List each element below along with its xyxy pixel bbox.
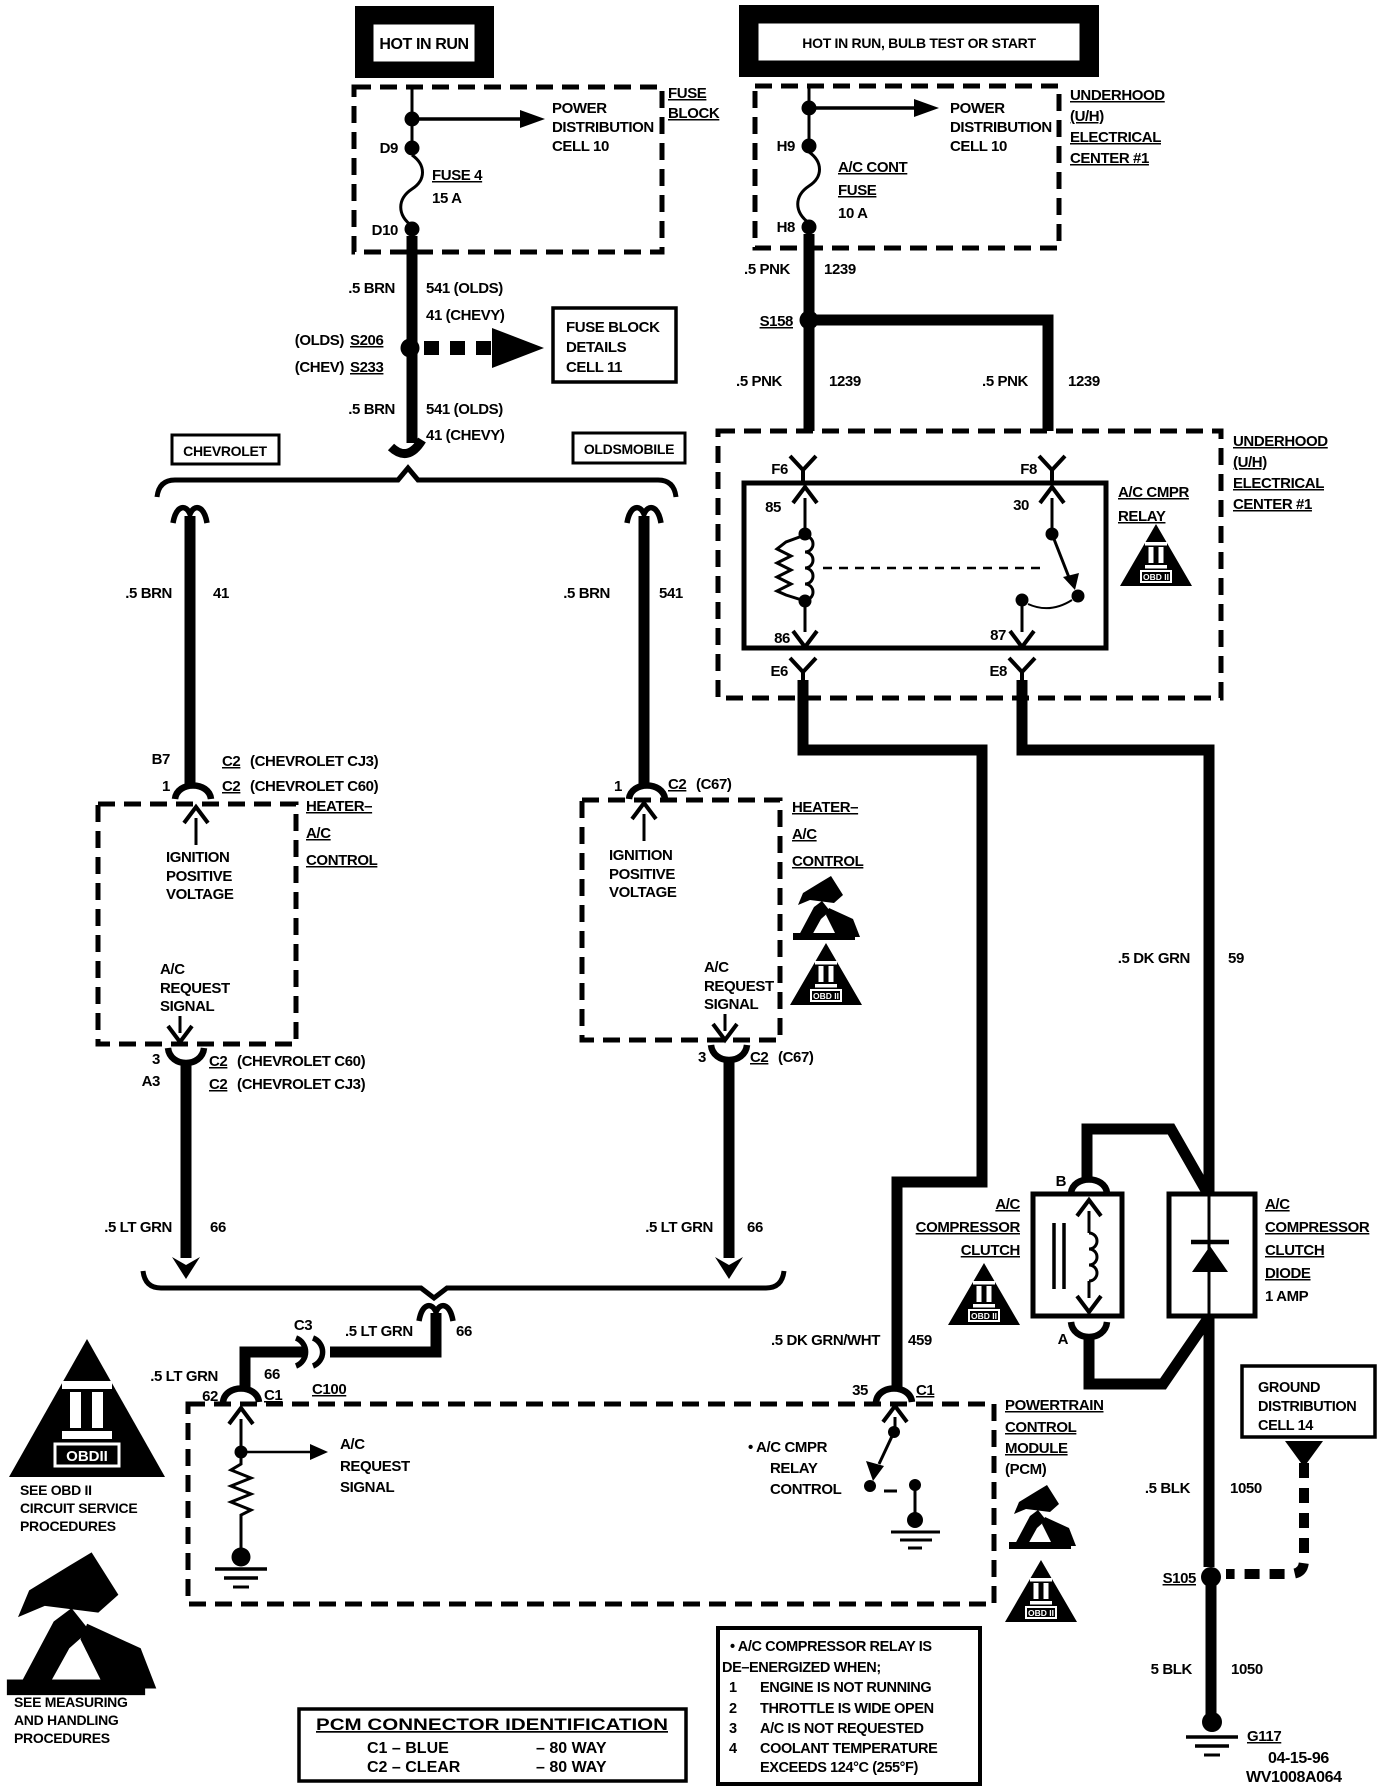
svg-text:EXCEEDS 124°C (255°F): EXCEEDS 124°C (255°F) xyxy=(760,1760,918,1776)
wire S158 branch right xyxy=(809,320,1048,431)
relay pin 30 xyxy=(1013,487,1064,530)
svg-text:.5 BRN: .5 BRN xyxy=(348,401,395,418)
svg-text:C2 – CLEAR: C2 – CLEAR xyxy=(367,1759,461,1776)
svg-text:10 A: 10 A xyxy=(838,205,868,222)
fuse block dashed box xyxy=(354,87,662,252)
OBD II symbol (relay) xyxy=(1120,524,1192,586)
wire .5 PNK 1239 upper xyxy=(804,234,815,320)
svg-text:FUSE: FUSE xyxy=(668,85,707,102)
svg-text:IGNITION: IGNITION xyxy=(609,847,672,864)
svg-text:15 A: 15 A xyxy=(432,190,462,207)
splice S206/S233 xyxy=(295,332,420,376)
svg-text:(C67): (C67) xyxy=(696,776,732,793)
svg-text:(OLDS): (OLDS) xyxy=(295,332,345,349)
svg-text:.5 PNK: .5 PNK xyxy=(736,373,783,390)
node H8 xyxy=(802,220,817,235)
label POWERTRAIN CONTROL MODULE (PCM) xyxy=(1005,1397,1104,1478)
OBD II service note symbol (large) xyxy=(9,1339,165,1534)
PCM connector identification table xyxy=(299,1709,686,1781)
svg-text:66: 66 xyxy=(210,1219,226,1236)
svg-text:04-15-96: 04-15-96 xyxy=(1268,1750,1329,1767)
wire from hot feed into fuse block xyxy=(411,87,414,155)
svg-text:(CHEVROLET CJ3): (CHEVROLET CJ3) xyxy=(237,1076,366,1093)
fuse block details cell 11 box xyxy=(553,308,676,382)
svg-text:PROCEDURES: PROCEDURES xyxy=(14,1730,110,1746)
svg-text:CENTER #1: CENTER #1 xyxy=(1233,496,1312,513)
arrow to power distribution cell 10 (right) xyxy=(809,99,1052,155)
splice S158 xyxy=(760,311,819,331)
svg-text:459: 459 xyxy=(908,1332,932,1349)
svg-text:G117: G117 xyxy=(1247,1728,1281,1745)
wire branch to clutch pin B xyxy=(1087,1129,1207,1192)
svg-text:DISTRIBUTION: DISTRIBUTION xyxy=(1258,1399,1356,1415)
svg-text:DISTRIBUTION: DISTRIBUTION xyxy=(552,119,654,136)
svg-text:C100: C100 xyxy=(312,1381,346,1398)
svg-text:41 (CHEVY): 41 (CHEVY) xyxy=(426,307,505,324)
connector C1 pin 35 (PCM) xyxy=(852,1382,934,1402)
ESD handling note symbol (large) xyxy=(7,1552,156,1746)
power source box HOT IN RUN, BULB TEST OR START xyxy=(739,5,1099,77)
svg-text:E6: E6 xyxy=(770,663,788,680)
svg-text:GROUND: GROUND xyxy=(1258,1380,1320,1396)
svg-text:ELECTRICAL: ELECTRICAL xyxy=(1070,129,1161,146)
fuse A/C CONT FUSE 10A xyxy=(798,152,908,223)
svg-text:CLUTCH: CLUTCH xyxy=(961,1242,1020,1259)
svg-text:CONTROL: CONTROL xyxy=(1005,1419,1077,1436)
svg-text:CHEVROLET: CHEVROLET xyxy=(183,443,267,459)
svg-text:DIODE: DIODE xyxy=(1265,1265,1311,1282)
splice S105 xyxy=(1163,1567,1221,1587)
svg-text:CELL 10: CELL 10 xyxy=(950,138,1007,155)
wire .5 DK GRN 59 from E8 to clutch xyxy=(1022,680,1209,1196)
label UNDERHOOD (U/H) ELECTRICAL CENTER #1 (relay box) xyxy=(1233,433,1328,513)
arrow into bottom brace (olds) xyxy=(715,1257,743,1279)
PCM a/c request input xyxy=(229,1408,410,1496)
wire .5 BRN 541 oldsmobile branch xyxy=(639,516,650,784)
svg-text:ENGINE IS NOT RUNNING: ENGINE IS NOT RUNNING xyxy=(760,1680,931,1696)
svg-text:541: 541 xyxy=(659,585,683,602)
node H9 xyxy=(802,139,817,154)
svg-text:2: 2 xyxy=(729,1701,737,1717)
svg-text:5 BLK: 5 BLK xyxy=(1151,1661,1193,1678)
wire into A/C CONT fuse xyxy=(808,86,811,152)
svg-text:C2: C2 xyxy=(750,1049,768,1066)
svg-text:– 80 WAY: – 80 WAY xyxy=(536,1740,607,1757)
svg-text:DETAILS: DETAILS xyxy=(566,339,627,356)
PCM a/c cmpr relay control driver xyxy=(864,1406,940,1548)
svg-text:COMPRESSOR: COMPRESSOR xyxy=(916,1219,1021,1236)
svg-text:A/C: A/C xyxy=(792,826,817,843)
svg-text:UNDERHOOD: UNDERHOOD xyxy=(1233,433,1328,450)
relay internal dashed actuation line xyxy=(823,567,1044,570)
svg-text:541 (OLDS): 541 (OLDS) xyxy=(426,401,503,418)
svg-text:A/C: A/C xyxy=(340,1436,365,1453)
svg-text:SIGNAL: SIGNAL xyxy=(704,996,759,1013)
svg-text:VOLTAGE: VOLTAGE xyxy=(609,884,677,901)
svg-text:C1: C1 xyxy=(264,1387,282,1404)
svg-text:H8: H8 xyxy=(777,219,795,236)
svg-text:PROCEDURES: PROCEDURES xyxy=(20,1518,116,1534)
ground G117 xyxy=(1186,1712,1281,1755)
svg-text:SEE OBD II: SEE OBD II xyxy=(20,1482,92,1498)
svg-text:MODULE: MODULE xyxy=(1005,1440,1068,1457)
svg-text:(U/H): (U/H) xyxy=(1070,108,1104,125)
svg-text:F8: F8 xyxy=(1020,461,1037,478)
svg-text:.5 BRN: .5 BRN xyxy=(348,280,395,297)
A/C compressor clutch diode box xyxy=(1169,1194,1255,1316)
svg-text:86: 86 xyxy=(774,630,790,647)
svg-text:S105: S105 xyxy=(1163,1570,1196,1587)
fuse FUSE 4 15A xyxy=(401,155,483,226)
svg-text:A/C CMPR: A/C CMPR xyxy=(1118,484,1190,501)
a/c request signal output (chevy) xyxy=(160,961,230,1042)
svg-text:ELECTRICAL: ELECTRICAL xyxy=(1233,475,1324,492)
connector clutch pin B xyxy=(1071,1180,1107,1194)
connector E8 xyxy=(1009,658,1035,683)
svg-text:1239: 1239 xyxy=(1068,373,1100,390)
svg-text:PCM CONNECTOR IDENTIFICATION: PCM CONNECTOR IDENTIFICATION xyxy=(316,1715,668,1734)
svg-text:S206: S206 xyxy=(350,332,383,349)
underhood electrical center #1 dashed box (relay) xyxy=(718,431,1221,698)
svg-text:A/C: A/C xyxy=(306,825,331,842)
svg-text:REQUEST: REQUEST xyxy=(704,978,774,995)
svg-text:.5 LT GRN: .5 LT GRN xyxy=(345,1323,413,1340)
svg-text:POSITIVE: POSITIVE xyxy=(609,866,675,883)
wire .5 LT GRN 66 to PCM xyxy=(330,1313,436,1352)
svg-text:(C67): (C67) xyxy=(778,1049,814,1066)
svg-text:.5 LT GRN: .5 LT GRN xyxy=(645,1219,713,1236)
A/C compressor clutch box xyxy=(1033,1194,1122,1316)
powertrain control module dashed box xyxy=(188,1404,994,1604)
svg-text:A/C: A/C xyxy=(704,959,729,976)
svg-text:87: 87 xyxy=(990,627,1006,644)
svg-text:SIGNAL: SIGNAL xyxy=(340,1479,395,1496)
svg-text:CELL 10: CELL 10 xyxy=(552,138,609,155)
svg-text:CENTER #1: CENTER #1 xyxy=(1070,150,1149,167)
svg-text:DE–ENERGIZED WHEN;: DE–ENERGIZED WHEN; xyxy=(722,1660,881,1676)
ground distribution funnel arrow xyxy=(1285,1441,1323,1467)
svg-text:4: 4 xyxy=(729,1741,737,1757)
connector C2 pin 3/A3 xyxy=(142,1048,366,1093)
wire .5 BLK 1050 below diode xyxy=(1204,1316,1215,1567)
hook arrow into brace xyxy=(391,440,422,454)
svg-text:A3: A3 xyxy=(142,1073,160,1090)
label UNDERHOOD (U/H) ELECTRICAL CENTER #1 (top) xyxy=(1070,87,1165,167)
top distribution brace xyxy=(157,468,676,497)
svg-text:B: B xyxy=(1056,1173,1067,1190)
oldsmobile branch hook xyxy=(627,508,661,523)
svg-text:VOLTAGE: VOLTAGE xyxy=(166,886,234,903)
svg-text:.5 BLK: .5 BLK xyxy=(1145,1480,1191,1497)
svg-text:A/C CONT: A/C CONT xyxy=(838,159,908,176)
svg-text:85: 85 xyxy=(765,499,781,516)
svg-text:– 80 WAY: – 80 WAY xyxy=(536,1759,607,1776)
svg-text:• A/C COMPRESSOR RELAY IS: • A/C COMPRESSOR RELAY IS xyxy=(730,1639,932,1655)
svg-text:66: 66 xyxy=(747,1219,763,1236)
svg-text:S233: S233 xyxy=(350,359,383,376)
svg-text:C1 – BLUE: C1 – BLUE xyxy=(367,1740,449,1757)
svg-text:30: 30 xyxy=(1013,497,1029,514)
svg-text:C1: C1 xyxy=(916,1382,934,1399)
svg-text:1: 1 xyxy=(162,778,170,795)
svg-text:1239: 1239 xyxy=(824,261,856,278)
svg-text:UNDERHOOD: UNDERHOOD xyxy=(1070,87,1165,104)
svg-text:THROTTLE IS WIDE OPEN: THROTTLE IS WIDE OPEN xyxy=(760,1701,934,1717)
relay pin 85 xyxy=(765,487,817,531)
svg-text:(CHEVROLET CJ3): (CHEVROLET CJ3) xyxy=(250,753,379,770)
note box A/C compressor relay de-energized xyxy=(718,1628,980,1784)
svg-text:CELL 11: CELL 11 xyxy=(566,359,622,376)
svg-text:FUSE: FUSE xyxy=(838,182,877,199)
wire clutch pin A to ground wire xyxy=(1089,1320,1207,1384)
svg-text:C2: C2 xyxy=(222,778,240,795)
svg-text:CONTROL: CONTROL xyxy=(306,852,378,869)
hook at brace output xyxy=(419,1306,453,1321)
label A/C CMPR RELAY CONTROL xyxy=(748,1439,842,1498)
svg-text:H9: H9 xyxy=(777,138,795,155)
svg-text:.5 LT GRN: .5 LT GRN xyxy=(150,1368,218,1385)
svg-text:C3: C3 xyxy=(294,1317,312,1334)
svg-text:• A/C CMPR: • A/C CMPR xyxy=(748,1439,828,1456)
svg-text:POWER: POWER xyxy=(552,100,607,117)
bottom collector brace xyxy=(143,1271,784,1298)
svg-text:B7: B7 xyxy=(152,751,170,768)
svg-text:41 (CHEVY): 41 (CHEVY) xyxy=(426,427,505,444)
PCM internal ground (left) xyxy=(215,1548,267,1588)
svg-text:.5 DK GRN/WHT: .5 DK GRN/WHT xyxy=(771,1332,880,1349)
svg-text:.5 DK GRN: .5 DK GRN xyxy=(1118,950,1190,967)
svg-text:COOLANT TEMPERATURE: COOLANT TEMPERATURE xyxy=(760,1741,938,1757)
label HEATER-A/C CONTROL (right) xyxy=(792,799,864,870)
svg-text:(PCM): (PCM) xyxy=(1005,1461,1047,1478)
svg-text:541 (OLDS): 541 (OLDS) xyxy=(426,280,503,297)
ignition positive voltage input (olds) xyxy=(609,803,677,901)
svg-text:D9: D9 xyxy=(380,140,398,157)
wire .5 LT GRN 66 (olds) xyxy=(724,1061,735,1258)
svg-text:AND HANDLING: AND HANDLING xyxy=(14,1712,119,1728)
svg-text:HOT IN RUN: HOT IN RUN xyxy=(379,36,468,53)
svg-text:.5 BRN: .5 BRN xyxy=(125,585,172,602)
svg-text:RELAY: RELAY xyxy=(770,1460,818,1477)
svg-text:FUSE BLOCK: FUSE BLOCK xyxy=(566,319,660,336)
OBD II symbol (olds heater control) xyxy=(790,943,862,1005)
label A/C COMPRESSOR CLUTCH DIODE 1 AMP xyxy=(1265,1196,1370,1305)
svg-text:CELL 14: CELL 14 xyxy=(1258,1418,1313,1434)
svg-text:C2: C2 xyxy=(209,1076,227,1093)
underhood electrical center dashed box (fuse) xyxy=(755,86,1059,248)
node D9 xyxy=(405,141,420,156)
chevrolet branch hook xyxy=(173,508,207,523)
svg-text:POSITIVE: POSITIVE xyxy=(166,868,232,885)
svg-text:RELAY: RELAY xyxy=(1118,508,1166,525)
svg-text:C2: C2 xyxy=(222,753,240,770)
arrow to power distribution cell 10 xyxy=(412,100,654,155)
svg-text:A/C: A/C xyxy=(160,961,185,978)
svg-text:66: 66 xyxy=(456,1323,472,1340)
svg-text:A: A xyxy=(1058,1331,1069,1348)
svg-text:A/C: A/C xyxy=(1265,1196,1290,1213)
svg-text:IGNITION: IGNITION xyxy=(166,849,229,866)
label HEATER-A/C CONTROL (left) xyxy=(306,798,378,869)
svg-text:A/C IS NOT REQUESTED: A/C IS NOT REQUESTED xyxy=(760,1721,924,1737)
connector C100 pin 62/66 C1 xyxy=(150,1366,346,1405)
svg-text:HEATER–: HEATER– xyxy=(792,799,858,816)
svg-text:A/C: A/C xyxy=(995,1196,1020,1213)
heater-A/C control box (chevrolet) xyxy=(98,804,296,1044)
svg-text:(CHEVROLET C60): (CHEVROLET C60) xyxy=(250,778,379,795)
heater-A/C control box (oldsmobile) xyxy=(582,800,780,1040)
dashed wire ground distribution to S105 xyxy=(1226,1463,1304,1574)
node D10 xyxy=(405,222,420,237)
connector F6 xyxy=(790,456,816,481)
svg-text:OLDSMOBILE: OLDSMOBILE xyxy=(584,441,674,457)
svg-text:HOT IN RUN, BULB TEST OR START: HOT IN RUN, BULB TEST OR START xyxy=(802,35,1036,51)
svg-text:(U/H): (U/H) xyxy=(1233,454,1267,471)
svg-text:(CHEV): (CHEV) xyxy=(295,359,345,376)
svg-text:CLUTCH: CLUTCH xyxy=(1265,1242,1324,1259)
svg-text:D10: D10 xyxy=(372,222,398,239)
svg-text:1: 1 xyxy=(614,778,622,795)
svg-text:CIRCUIT SERVICE: CIRCUIT SERVICE xyxy=(20,1500,137,1516)
svg-text:FUSE 4: FUSE 4 xyxy=(432,167,483,184)
wire .5 LT GRN 66 (chevy) xyxy=(181,1064,192,1258)
svg-text:.5 PNK: .5 PNK xyxy=(744,261,791,278)
svg-text:C2: C2 xyxy=(668,776,686,793)
svg-text:3: 3 xyxy=(698,1049,706,1066)
ignition positive voltage input (chevy) xyxy=(166,807,234,903)
relay box A/C CMPR RELAY xyxy=(744,483,1106,648)
OBD II symbol (clutch) xyxy=(948,1263,1020,1325)
svg-text:SEE MEASURING: SEE MEASURING xyxy=(14,1694,128,1710)
svg-text:1050: 1050 xyxy=(1230,1480,1262,1497)
connector E6 xyxy=(790,658,816,683)
ground distribution cell 14 box xyxy=(1242,1366,1375,1437)
svg-text:3: 3 xyxy=(729,1721,737,1737)
wire .5 BRN 41 chevrolet branch xyxy=(185,516,196,784)
in-line connector C3 xyxy=(296,1338,323,1366)
ESD symbol (olds heater control) xyxy=(793,876,860,940)
svg-text:3: 3 xyxy=(152,1051,160,1068)
svg-text:.5 BRN: .5 BRN xyxy=(563,585,610,602)
a/c request signal output (olds) xyxy=(704,959,774,1040)
svg-text:.5 LT GRN: .5 LT GRN xyxy=(104,1219,172,1236)
svg-text:.5 PNK: .5 PNK xyxy=(982,373,1029,390)
svg-text:1050: 1050 xyxy=(1231,1661,1263,1678)
svg-text:35: 35 xyxy=(852,1382,868,1399)
svg-text:1 AMP: 1 AMP xyxy=(1265,1288,1309,1305)
svg-text:E8: E8 xyxy=(989,663,1007,680)
svg-text:(CHEVROLET C60): (CHEVROLET C60) xyxy=(237,1053,366,1070)
svg-text:SIGNAL: SIGNAL xyxy=(160,998,215,1015)
connector C2 pin B7/1 (chevy heater control) xyxy=(152,751,379,799)
svg-text:CONTROL: CONTROL xyxy=(770,1481,842,1498)
svg-text:POWER: POWER xyxy=(950,100,1005,117)
svg-text:S158: S158 xyxy=(760,313,793,330)
svg-text:WV1008A064: WV1008A064 xyxy=(1246,1769,1342,1786)
connector C2 pin 3 (olds) xyxy=(698,1045,814,1066)
connector clutch pin A xyxy=(1071,1322,1107,1337)
wire 5 BLK 1050 to G117 xyxy=(1206,1577,1217,1716)
relay switch 30 to 87 xyxy=(1016,528,1085,609)
svg-text:66: 66 xyxy=(264,1366,280,1383)
relay pin 87 xyxy=(990,600,1034,647)
svg-text:DISTRIBUTION: DISTRIBUTION xyxy=(950,119,1052,136)
junction to power distribution xyxy=(802,101,817,116)
svg-text:BLOCK: BLOCK xyxy=(668,105,720,122)
dashed arrow to fuse block details xyxy=(424,328,544,368)
OBD II symbol (PCM) xyxy=(1005,1560,1077,1622)
svg-text:F6: F6 xyxy=(771,461,788,478)
svg-text:POWERTRAIN: POWERTRAIN xyxy=(1005,1397,1104,1414)
wire .5 DK GRN/WHT 459 from E6 to PCM pin 35 xyxy=(803,680,982,1387)
relay pin 86 xyxy=(774,601,817,647)
svg-text:REQUEST: REQUEST xyxy=(160,980,230,997)
PCM pull-up resistor xyxy=(231,1452,251,1548)
connector F8 xyxy=(1039,456,1065,481)
svg-text:59: 59 xyxy=(1228,950,1244,967)
wire .5 BRN circuit 541/41 upper xyxy=(407,236,418,348)
power source box HOT IN RUN xyxy=(355,6,494,78)
svg-text:41: 41 xyxy=(213,585,229,602)
label FUSE BLOCK xyxy=(668,85,720,122)
relay coil with parallel resistor xyxy=(777,528,813,608)
OLDSMOBILE tag box xyxy=(573,433,685,463)
svg-text:1: 1 xyxy=(729,1680,737,1696)
svg-text:1239: 1239 xyxy=(829,373,861,390)
label A/C COMPRESSOR CLUTCH xyxy=(916,1196,1021,1259)
node feed junction xyxy=(405,112,420,127)
svg-text:COMPRESSOR: COMPRESSOR xyxy=(1265,1219,1370,1236)
ESD symbol (PCM) xyxy=(1009,1485,1076,1549)
svg-text:CONTROL: CONTROL xyxy=(792,853,864,870)
svg-text:OBDII: OBDII xyxy=(66,1448,108,1465)
connector C2 pin 1 (olds heater control) xyxy=(614,776,732,799)
svg-text:C2: C2 xyxy=(209,1053,227,1070)
wire .5 BRN circuit 541/41 lower xyxy=(407,348,418,443)
svg-text:HEATER–: HEATER– xyxy=(306,798,372,815)
svg-text:REQUEST: REQUEST xyxy=(340,1458,410,1475)
arrow into bottom brace (chevy) xyxy=(172,1257,200,1279)
CHEVROLET tag box xyxy=(172,435,279,464)
wire S158 down xyxy=(804,320,815,431)
